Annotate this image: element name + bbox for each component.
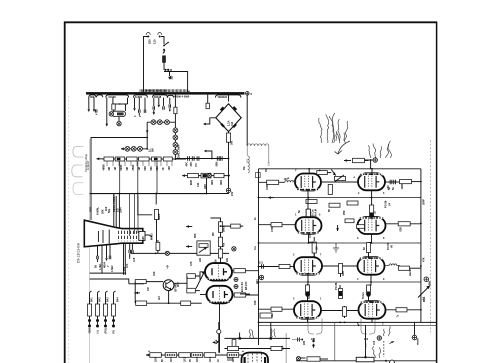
svg-text:5d: 5d [95, 265, 98, 268]
svg-text:5n: 5n [392, 187, 395, 190]
pot drop wires [120, 161, 157, 193]
plate resistor R30 [344, 158, 369, 162]
svg-text:25K: 25K [343, 210, 346, 215]
page border frame top [64, 21, 437, 23]
svg-text:47K: 47K [423, 257, 426, 262]
svg-text:1K3: 1K3 [196, 357, 199, 362]
bottom resistor R25 [227, 353, 239, 362]
svg-text:2M: 2M [126, 167, 129, 170]
resistor R12 [218, 237, 222, 247]
row1 extra wire marks [287, 176, 356, 179]
terminal FineA [373, 326, 390, 358]
row3 pot diag [418, 286, 430, 303]
control pot P2 dark [115, 157, 125, 161]
lamp L4 [173, 128, 178, 133]
svg-text:2M: 2M [108, 167, 111, 170]
col wire r2-r3 right [369, 234, 372, 257]
col wire r3-r4 right [369, 275, 373, 301]
inter row labels c [303, 282, 376, 345]
cathode resistor R44 [306, 284, 310, 301]
bottom row labels2 [161, 359, 220, 362]
terminal cluster 1 [88, 95, 103, 115]
bottom mid resistor Rc [271, 346, 282, 350]
cap C5 [217, 156, 219, 161]
triode V6b [358, 257, 385, 275]
junction dots set [258, 181, 422, 324]
bottom tube V3 partial [242, 353, 269, 363]
resistor R11 [218, 222, 222, 233]
bottom small parts [296, 357, 328, 362]
mid tube drop wire [219, 302, 221, 352]
CRT neck wire pair [124, 244, 126, 275]
divider string labels [91, 297, 120, 302]
takeoff arrow up [204, 150, 213, 160]
row3 input resistor R42 [279, 264, 294, 268]
stage left arrow [134, 292, 140, 295]
svg-text:1K: 1K [162, 167, 165, 170]
svg-text:R42: R42 [99, 297, 102, 302]
svg-text:5W: 5W [152, 148, 155, 152]
svg-text:30PF: 30PF [423, 199, 426, 205]
svg-text:(+): (+) [97, 330, 100, 333]
row34 labels [308, 290, 365, 299]
bridge rectifier D1 [216, 95, 242, 132]
svg-text:1W: 1W [147, 287, 150, 291]
svg-text:1094921: 1094921 [218, 96, 228, 99]
bottom curly left [308, 318, 322, 341]
row2 labels [271, 226, 403, 232]
bottom left caps [292, 338, 303, 342]
feedback resistor R8a [135, 280, 146, 284]
svg-text:17El2: 17El2 [111, 265, 114, 272]
svg-text:100: 100 [387, 185, 390, 190]
col wire r2-r3 left [309, 234, 315, 258]
row3 input wire [259, 262, 279, 269]
row1 inter wire [321, 180, 400, 190]
svg-text:1809032133981213: 1809032133981213 [145, 89, 168, 92]
grid rail to right [131, 253, 229, 255]
inter resistor R36 [347, 201, 358, 205]
B+ rail vertical [228, 158, 230, 189]
svg-text:(PU): (PU) [105, 328, 108, 333]
fineA dashed lead [383, 341, 385, 357]
bottom mid dots [228, 357, 232, 361]
svg-text:470: 470 [373, 340, 376, 345]
fold line [68, 96, 70, 363]
resistor R5 [214, 174, 224, 178]
svg-text:1,2A: 1,2A [227, 120, 231, 126]
svg-text:470K: 470K [271, 226, 274, 232]
bus terminal numbers [187, 90, 191, 92]
svg-text:A-MAL: A-MAL [97, 206, 100, 215]
curly arrow [335, 141, 351, 154]
svg-text:5n: 5n [298, 210, 301, 213]
bottom curly right [361, 318, 375, 341]
emitter resistor R8c [181, 301, 202, 305]
collector wire [174, 282, 187, 284]
bottom resistor R22 [179, 353, 191, 362]
CRT bottom rail 1 [90, 265, 127, 273]
svg-text:PC: PC [195, 163, 198, 167]
pot row wire [103, 158, 187, 160]
svg-text:98 A.M: 98 A.M [315, 209, 318, 217]
page border frame left [64, 22, 66, 363]
cap row wire [175, 158, 229, 160]
left long rail [91, 137, 148, 194]
divider resistor string 1 [88, 291, 92, 334]
bottom mid scribble 1 [249, 329, 253, 338]
pair wires [200, 272, 207, 295]
bottom mid drop [213, 322, 221, 353]
crt rail2 extension [129, 283, 144, 285]
pentode V5b [358, 217, 386, 234]
arrow mid a [186, 225, 192, 228]
line cap C1 [170, 76, 172, 79]
bottom mid resistor Ra [232, 340, 236, 348]
heater feed wire [174, 95, 190, 122]
CRT feed wire b [114, 194, 116, 229]
svg-text:H04: H04 [256, 279, 259, 284]
pair terminal a [234, 278, 238, 282]
lamp L9 [131, 146, 136, 151]
bottom resistor R21 [165, 353, 177, 362]
bottom right vertical [365, 325, 367, 352]
svg-text:000: 000 [90, 95, 95, 99]
svg-text:1,3EL: 1,3EL [99, 263, 102, 270]
CRT bottom wire d [109, 245, 111, 260]
lamp L5 [173, 135, 178, 140]
svg-text:980i: 980i [216, 161, 219, 166]
svg-text:PO 86: PO 86 [384, 200, 388, 208]
inner margin line [89, 139, 91, 363]
chassis bus bar [86, 92, 245, 95]
arrow mid b [186, 245, 192, 248]
bottom mid resistor Rb [228, 346, 239, 350]
mid wires [211, 218, 244, 263]
pair terminal b [234, 285, 238, 289]
terminal cluster 2 with pilot lamp [106, 95, 129, 127]
cathode resistor R37 [312, 237, 316, 258]
cathode resistor R45 [367, 285, 371, 297]
pair plate resistor a [232, 269, 259, 273]
svg-text:LIN: LIN [199, 258, 202, 262]
bus terminal ticks [140, 89, 187, 92]
CRT bottom labels [95, 261, 111, 270]
right right rail [420, 169, 422, 323]
lamp L3 [165, 120, 170, 125]
svg-text:1M: 1M [114, 167, 117, 170]
row3 output resistor R43 [399, 266, 421, 276]
cap C2 [188, 156, 190, 161]
svg-text:R41: R41 [91, 297, 94, 302]
row1 pin labels [295, 170, 385, 196]
terminal T3 [424, 277, 432, 285]
svg-text:0,5: 0,5 [117, 208, 120, 212]
svg-text:500K: 500K [120, 164, 123, 170]
lamp L7 [173, 150, 178, 155]
svg-text:1h04: 1h04 [120, 207, 123, 213]
svg-text:1K4: 1K4 [209, 357, 212, 362]
svg-text:PU: PU [113, 330, 116, 334]
pot value labels [103, 164, 172, 171]
row1 pot diag [335, 175, 346, 182]
CRT bottom wire c [105, 245, 108, 261]
row4 labels [271, 314, 400, 318]
svg-text:BM: BM [429, 281, 432, 285]
CRT bottom wire b [101, 246, 103, 274]
CRT feed wire d [138, 194, 152, 215]
svg-text:4PC: 4PC [186, 161, 189, 166]
resistor R13 [218, 249, 222, 258]
svg-text:4n7: 4n7 [158, 295, 161, 300]
svg-text:50018: 50018 [154, 95, 162, 99]
svg-text:Tik: Tik [243, 166, 246, 170]
chassis bump 3 [73, 183, 84, 195]
bus stub wire [206, 95, 209, 109]
left rail labels [254, 217, 257, 305]
row3 inter [322, 264, 357, 299]
svg-text:4M50: 4M50 [103, 164, 106, 171]
triode V1 ECC83 [205, 263, 232, 281]
svg-text:2n2: 2n2 [105, 206, 108, 211]
heater coil leads [243, 146, 269, 178]
col wire r1-r2 left [307, 191, 309, 219]
pot box P7 [197, 241, 210, 255]
CRT feed wire c [118, 194, 120, 229]
stage pot diagonal [196, 272, 205, 289]
divider resistor string 3 [104, 291, 108, 334]
lamp L8 [125, 146, 130, 151]
crt bottom extra labels [123, 257, 136, 271]
cap row labels [186, 161, 199, 166]
svg-text:1M: 1M [138, 167, 141, 170]
lamp L12 [232, 247, 236, 251]
stage label V4 [384, 200, 392, 208]
output resistor box [356, 352, 374, 362]
terminal cluster 4 [153, 95, 168, 115]
extra bus digits [145, 89, 168, 92]
svg-text:00190: 00190 [109, 95, 117, 99]
bottom terminal circle [390, 360, 395, 363]
B+ terminal [226, 188, 234, 196]
row1 top feeds [309, 169, 372, 174]
svg-text:250K: 250K [132, 164, 135, 170]
svg-text:33K: 33K [254, 300, 257, 305]
svg-text:R43: R43 [107, 297, 110, 302]
mains wire left [144, 37, 149, 93]
row4 left box [260, 313, 272, 318]
svg-text:MH03: MH03 [151, 233, 154, 240]
lamp chain top wire [147, 121, 175, 123]
bottom mid scribble 2 [271, 328, 276, 337]
cathode resistor R38 [370, 205, 374, 219]
resistor R4 [188, 174, 199, 178]
row3 output coil [385, 264, 400, 266]
col wire r1-r2 right [371, 190, 373, 217]
right left rail [258, 169, 260, 345]
row2 drop wire [90, 178, 207, 194]
svg-text:XM4: XM4 [211, 179, 214, 185]
svg-text:1M2: 1M2 [90, 207, 93, 212]
lamp L1 [151, 120, 156, 125]
svg-text:220: 220 [148, 39, 152, 44]
handwritten note 2 [368, 141, 391, 158]
bottom out rail [296, 360, 436, 362]
svg-text:111: 111 [259, 262, 264, 265]
bottom arrow ne [390, 341, 395, 343]
row2 small boxes [345, 219, 365, 228]
row1 input resistor R31 [259, 180, 285, 184]
col wire r4 bottom [308, 319, 373, 323]
svg-text:470: 470 [309, 233, 312, 238]
svg-text:5M08: 5M08 [223, 225, 226, 232]
divider resistor string 2 [96, 291, 100, 334]
bottom mid rail 1 [224, 322, 290, 339]
mid-to-right wire [240, 293, 250, 295]
svg-text:111: 111 [254, 245, 257, 250]
lamp column wire [174, 122, 176, 161]
lamp chain 2 wire [121, 138, 148, 151]
svg-text:mash: mash [417, 338, 420, 345]
resistor R7 [156, 240, 160, 253]
row2 wire [187, 175, 230, 177]
svg-text:500: 500 [150, 166, 153, 171]
svg-text:220: 220 [303, 340, 306, 345]
svg-text:113: 113 [364, 338, 369, 341]
bottom rail [146, 354, 246, 357]
terminal mash [412, 322, 419, 345]
row3 pin labels [293, 254, 385, 282]
mid area labels [153, 233, 229, 276]
terminal T2 [256, 275, 264, 284]
cap C4 [197, 156, 199, 161]
lamp L2 [157, 120, 162, 125]
row1 output resistor R32 [400, 180, 421, 184]
CRT top rail [90, 193, 229, 195]
svg-text:47n: 47n [126, 263, 129, 268]
inter resistor R34 [306, 200, 317, 204]
pentode V4a [295, 174, 321, 191]
row4 pin labels [293, 298, 384, 326]
svg-text:1M: 1M [316, 247, 319, 250]
row2 pin labels [295, 214, 385, 241]
bottom labels [148, 350, 245, 352]
svg-text:1M5: 1M5 [342, 271, 345, 276]
inter row labels a [298, 209, 346, 250]
transistor bottom wire [168, 291, 170, 304]
svg-text:50p: 50p [108, 208, 111, 213]
svg-text:ECC 83: ECC 83 [240, 282, 244, 292]
CRT feed wire e [155, 194, 157, 205]
cap C5 label [216, 161, 219, 166]
bridge bottom wire [228, 132, 230, 133]
svg-text:PO 86: PO 86 [387, 242, 390, 250]
row1 grid resistor R33 [317, 170, 336, 176]
svg-text:V4: V4 [388, 202, 392, 206]
svg-text:AMAL 435B04: AMAL 435B04 [113, 195, 116, 212]
svg-text:2PC: 2PC [190, 161, 193, 166]
CRT socket arrow [145, 233, 154, 240]
pot wiper leads [107, 161, 172, 166]
lamp L11 [165, 251, 169, 255]
transistor top tick [166, 265, 169, 269]
svg-text:2K2: 2K2 [177, 282, 180, 287]
svg-text:Timm: Timm [362, 292, 365, 299]
heater coil L1 [247, 95, 269, 146]
svg-text:1K2: 1K2 [184, 357, 187, 362]
output tube V7b [359, 301, 386, 319]
svg-text:XM4: XM4 [220, 179, 223, 185]
inter row labels b [309, 211, 377, 276]
svg-text:M2K: M2K [190, 180, 193, 185]
svg-text:1K: 1K [374, 211, 377, 214]
resistor R14 [231, 224, 241, 228]
svg-text:EB 233: EB 233 [245, 281, 248, 290]
mid rail 2 [259, 242, 421, 244]
pot row left arrow [97, 157, 103, 160]
svg-text:408: 408 [223, 242, 226, 247]
feedback loop wire [135, 282, 163, 304]
triode V2 ECC83 [207, 286, 233, 304]
control pot P1 [104, 157, 114, 161]
row2 output resistor R40 [386, 222, 421, 226]
svg-text:Hams: Hams [409, 269, 412, 276]
resistor R10 [187, 288, 200, 293]
svg-text:110: 110 [153, 39, 157, 44]
svg-text:1n5: 1n5 [133, 257, 136, 262]
bridge left output wire [203, 118, 216, 126]
svg-text:0,1: 0,1 [423, 296, 426, 300]
col wire r3-r4 left [307, 275, 310, 302]
transistor labels [147, 282, 180, 300]
left margin text [85, 153, 90, 172]
mains branch arrow [168, 71, 171, 80]
mains plug contacts [146, 33, 164, 45]
row4 output resistor R47 [386, 308, 422, 312]
row1 cathode box [328, 184, 332, 194]
svg-text:PO 86: PO 86 [334, 282, 338, 290]
chassis bump 1 [73, 146, 84, 157]
svg-text:44296 4 0990: 44296 4 0990 [174, 96, 190, 99]
bottom wire drop [334, 322, 336, 360]
mains switch S1 [163, 42, 169, 51]
svg-text:4R04: 4R04 [103, 261, 106, 268]
right bottom rail 2 [259, 324, 437, 326]
lamp L10 [138, 146, 143, 151]
svg-text:1K1: 1K1 [170, 357, 173, 362]
svg-text:D9-13/13-GH: D9-13/13-GH [77, 242, 81, 263]
svg-text:10K: 10K [153, 271, 156, 276]
row4 input resistor R46 [259, 307, 295, 311]
row4 inter wire [321, 306, 359, 318]
stage label V6 [387, 242, 394, 250]
divider resistor string 4 [112, 291, 116, 334]
svg-text:DIAL LAMP: DIAL LAMP [177, 144, 180, 158]
left edge wire [282, 333, 287, 363]
heater line marks [246, 160, 270, 165]
svg-text:4M08: 4M08 [158, 213, 161, 220]
pentode V5a [296, 217, 322, 234]
svg-text:LIN: LIN [226, 258, 229, 262]
bottom resistor R23 [191, 353, 203, 362]
lamp chain corner [146, 122, 149, 137]
filter choke dark [201, 173, 211, 178]
row2 labels [190, 179, 223, 189]
inter resistor R41b [367, 243, 371, 258]
svg-text:100K: 100K [266, 184, 269, 190]
svg-text:82K: 82K [400, 227, 403, 232]
bridge output resistor R3 [226, 133, 233, 159]
